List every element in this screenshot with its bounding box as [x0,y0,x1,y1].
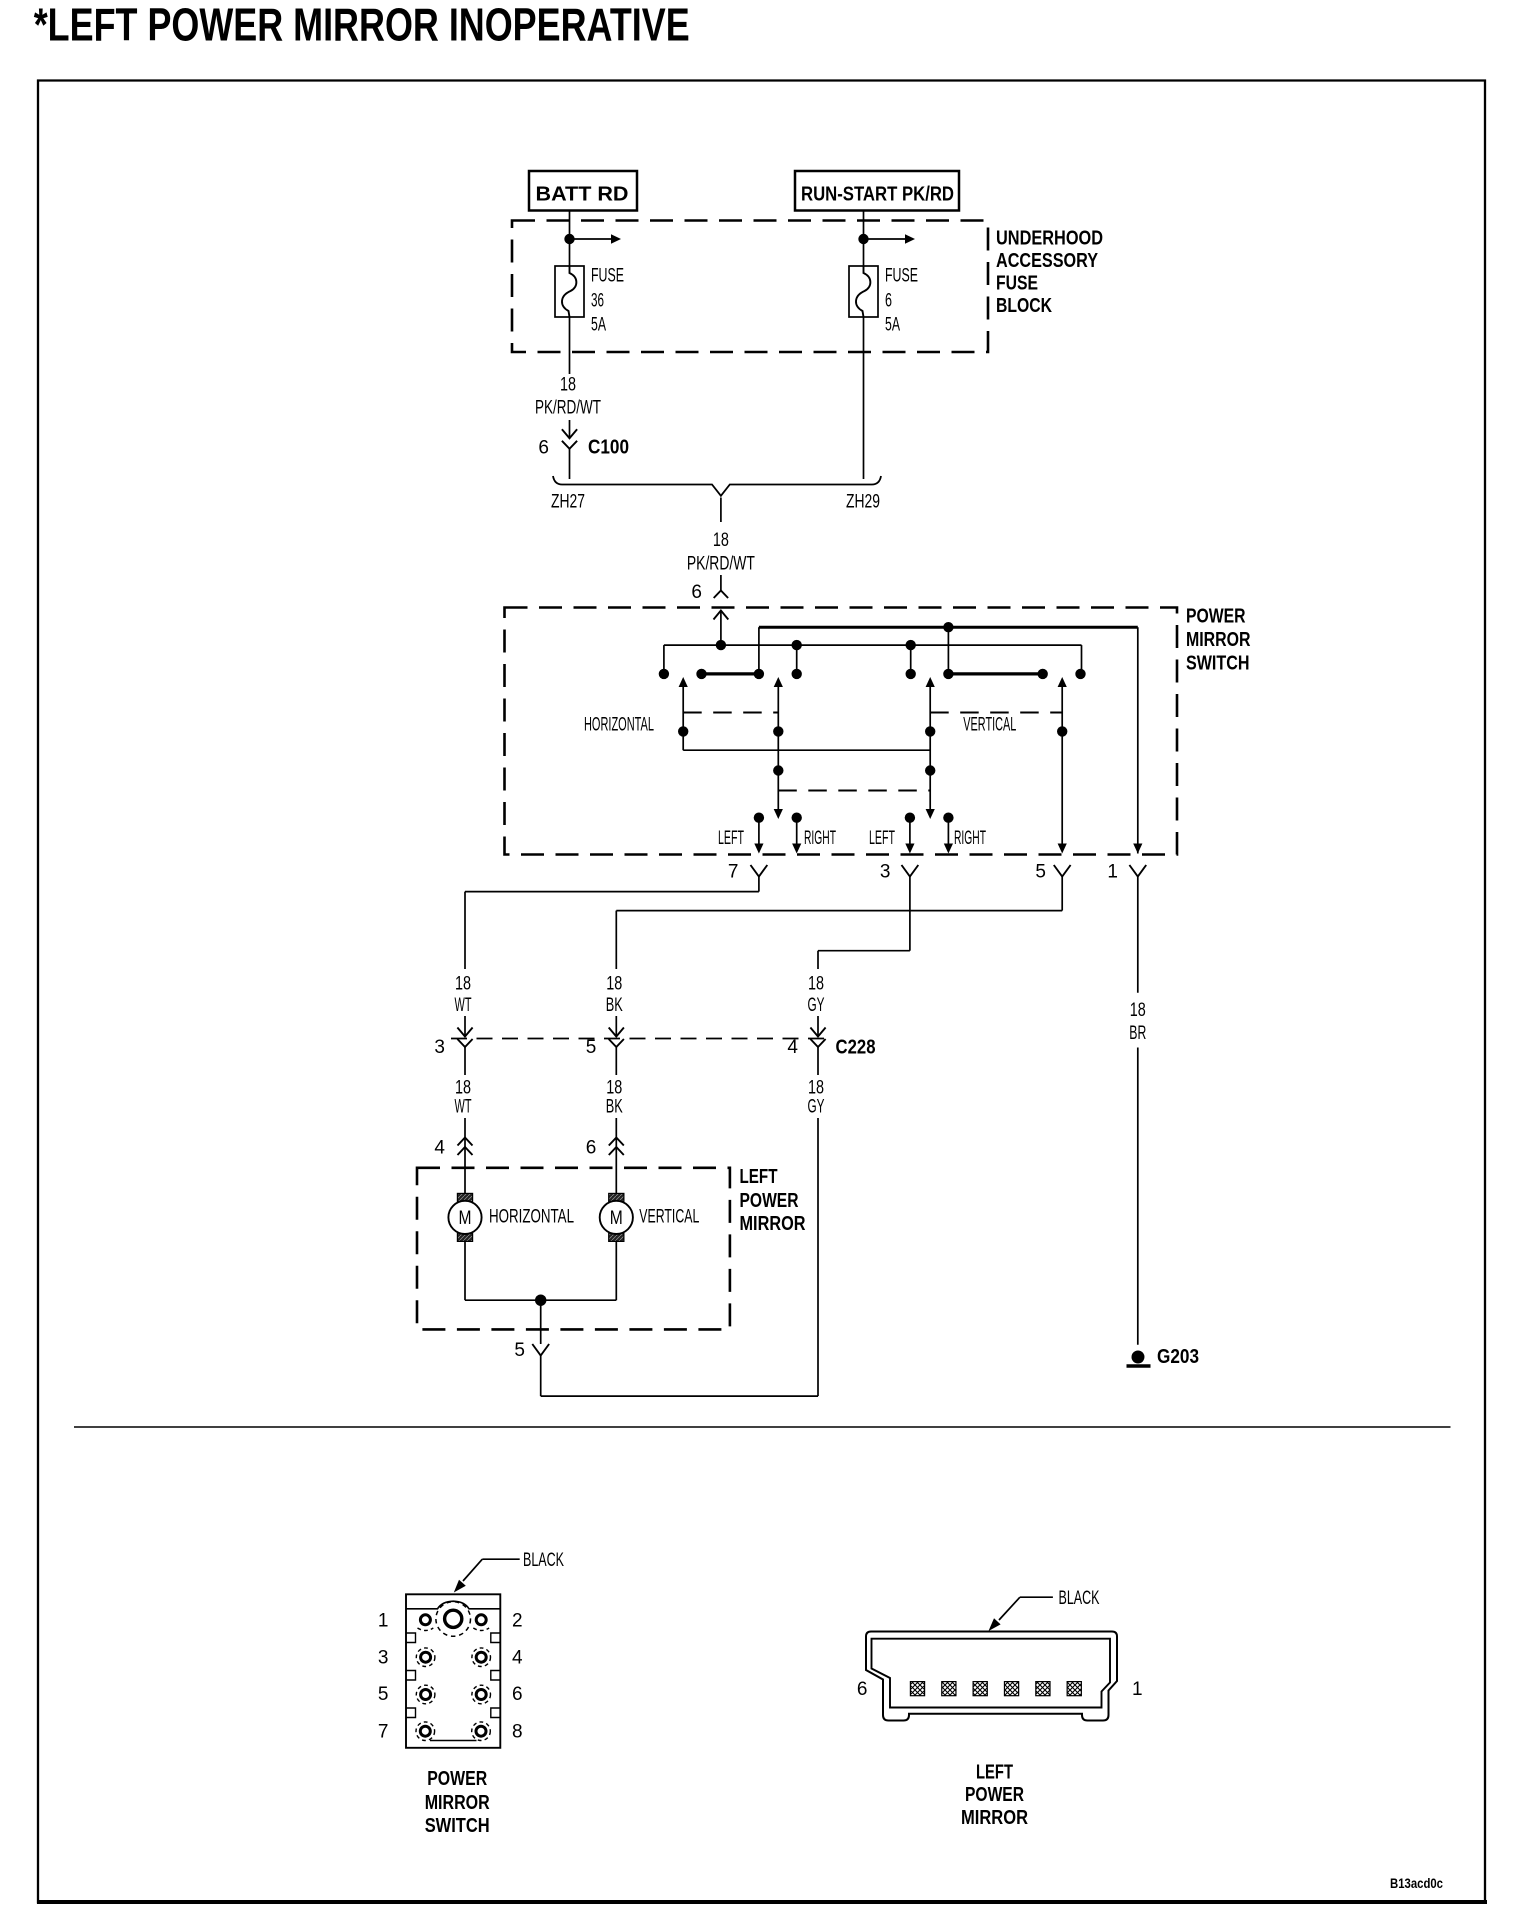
svg-text:POWER: POWER [427,1768,487,1790]
svg-text:4: 4 [787,1037,798,1058]
svg-text:3: 3 [378,1647,389,1668]
svg-text:18: 18 [606,1077,622,1098]
svg-text:BLOCK: BLOCK [996,295,1052,317]
svg-text:3: 3 [880,862,891,883]
svg-text:1: 1 [378,1610,389,1631]
svg-text:1: 1 [1107,862,1118,883]
svg-text:UNDERHOOD: UNDERHOOD [996,228,1103,250]
svg-text:FUSE: FUSE [996,273,1038,295]
svg-text:B13acd0c: B13acd0c [1390,1876,1443,1891]
svg-text:36: 36 [591,291,604,312]
svg-text:ZH27: ZH27 [551,492,585,513]
svg-text:G203: G203 [1157,1346,1199,1368]
svg-text:18: 18 [560,375,576,396]
svg-text:C100: C100 [588,437,629,459]
svg-text:M: M [459,1208,472,1229]
svg-text:POWER: POWER [1186,606,1246,628]
svg-text:BK: BK [606,995,623,1016]
svg-text:GY: GY [808,1096,825,1117]
svg-text:BLACK: BLACK [1059,1588,1100,1609]
svg-text:SWITCH: SWITCH [1186,653,1250,675]
svg-text:VERTICAL: VERTICAL [639,1207,699,1228]
svg-text:4: 4 [512,1647,523,1668]
svg-text:18: 18 [455,974,471,995]
svg-text:SWITCH: SWITCH [425,1815,490,1837]
svg-text:BR: BR [1129,1023,1146,1044]
svg-text:M: M [610,1208,623,1229]
svg-text:MIRROR: MIRROR [961,1807,1028,1829]
svg-text:WT: WT [455,1096,472,1117]
svg-text:18: 18 [713,530,729,551]
svg-text:PK/RD/WT: PK/RD/WT [535,398,601,419]
svg-text:3: 3 [434,1037,445,1058]
svg-text:6: 6 [538,438,549,459]
svg-text:*LEFT POWER MIRROR INOPERATIVE: *LEFT POWER MIRROR INOPERATIVE [34,0,690,51]
svg-text:1: 1 [1132,1679,1143,1700]
svg-text:FUSE: FUSE [591,266,624,287]
svg-text:FUSE: FUSE [885,266,918,287]
svg-text:5: 5 [514,1340,525,1361]
svg-text:POWER: POWER [740,1190,799,1212]
svg-text:6: 6 [691,582,702,603]
svg-text:C228: C228 [836,1036,876,1058]
svg-text:18: 18 [606,974,622,995]
svg-text:4: 4 [434,1138,445,1159]
svg-text:7: 7 [378,1722,389,1743]
svg-text:POWER: POWER [965,1784,1024,1806]
svg-text:5: 5 [586,1037,597,1058]
svg-text:6: 6 [857,1679,868,1700]
svg-text:6: 6 [512,1684,523,1705]
svg-text:8: 8 [512,1722,523,1743]
svg-text:5: 5 [378,1684,389,1705]
svg-text:MIRROR: MIRROR [740,1213,806,1235]
svg-text:6: 6 [586,1138,597,1159]
svg-text:HORIZONTAL: HORIZONTAL [489,1207,574,1228]
svg-text:5: 5 [1035,862,1046,883]
svg-text:5A: 5A [885,315,900,336]
svg-text:7: 7 [728,862,739,883]
svg-text:BK: BK [606,1096,623,1117]
svg-text:LEFT: LEFT [976,1761,1013,1783]
svg-text:LEFT: LEFT [869,828,895,849]
svg-text:BLACK: BLACK [523,1550,564,1571]
svg-text:18: 18 [808,974,824,995]
svg-text:18: 18 [455,1077,471,1098]
svg-text:ACCESSORY: ACCESSORY [996,250,1099,272]
svg-text:HORIZONTAL: HORIZONTAL [584,715,654,736]
svg-text:2: 2 [512,1610,523,1631]
svg-text:RIGHT: RIGHT [954,828,986,849]
svg-text:VERTICAL: VERTICAL [963,715,1016,736]
svg-text:LEFT: LEFT [718,828,744,849]
svg-text:RUN-START PK/RD: RUN-START PK/RD [801,184,954,206]
svg-text:BATT RD: BATT RD [536,184,629,206]
svg-text:5A: 5A [591,315,606,336]
svg-text:MIRROR: MIRROR [425,1792,490,1814]
svg-text:PK/RD/WT: PK/RD/WT [687,554,755,575]
svg-text:18: 18 [1130,1000,1146,1021]
svg-text:MIRROR: MIRROR [1186,629,1251,651]
svg-text:ZH29: ZH29 [846,492,880,513]
svg-text:WT: WT [455,995,472,1016]
svg-text:GY: GY [808,995,825,1016]
svg-text:6: 6 [885,291,892,312]
svg-text:RIGHT: RIGHT [804,828,836,849]
svg-text:18: 18 [808,1077,824,1098]
svg-text:LEFT: LEFT [740,1166,778,1188]
